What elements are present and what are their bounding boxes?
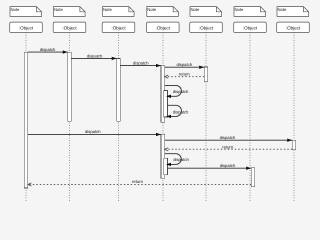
note N7	[277, 7, 309, 17]
message m12 return L6 to L1	[28, 179, 251, 186]
activation A2 on L2	[68, 52, 72, 121]
activation A4 on L4	[161, 66, 165, 123]
svg-text:return: return	[222, 144, 234, 149]
svg-text::Object: :Object	[111, 26, 126, 31]
note N6	[234, 7, 266, 17]
svg-text:dispatch: dispatch	[40, 47, 56, 52]
svg-text:Note: Note	[235, 7, 245, 12]
lifeline L4	[162, 33, 164, 202]
svg-text:dispatch: dispatch	[220, 135, 236, 140]
svg-text::Object: :Object	[62, 26, 77, 31]
lifeline L6	[249, 33, 251, 202]
message m7 dispatch L1->L4	[28, 129, 161, 136]
note N2	[54, 7, 86, 17]
note N4	[147, 7, 179, 17]
message m1 dispatch L1->L2	[28, 47, 68, 54]
object O4 ":Object"	[147, 22, 180, 32]
svg-text:Note: Note	[147, 7, 157, 12]
svg-text:Note: Note	[103, 7, 113, 12]
svg-text:dispatch: dispatch	[173, 110, 189, 115]
note N3	[103, 7, 135, 17]
svg-text::Object: :Object	[286, 26, 301, 31]
message m6 dispatch self on L4 (self call)	[165, 85, 189, 98]
message m4 dispatch L4->L5	[165, 62, 205, 69]
message m8 dispatch L4->L7	[165, 135, 293, 142]
svg-text:dispatch: dispatch	[176, 62, 192, 67]
svg-text:dispatch: dispatch	[87, 53, 103, 58]
object O6 ":Object"	[234, 22, 267, 32]
lifeline L5	[205, 33, 207, 202]
activation A6 on L6	[251, 168, 255, 187]
message m3 dispatch L3->L4	[120, 61, 161, 68]
activation A4c on L4 second	[161, 134, 165, 178]
svg-text::Object: :Object	[156, 26, 171, 31]
svg-text:Note: Note	[278, 7, 288, 12]
message m9 return L7 to L4	[165, 144, 293, 151]
message m11 dispatch L4->L6	[167, 163, 251, 170]
activation A3 on L3	[117, 58, 121, 121]
message m6b dispatch self on L4 (self call)	[166, 105, 189, 118]
object O7 ":Object"	[277, 22, 310, 32]
lifeline L7	[293, 33, 295, 202]
message m5 return L5 to L4	[165, 71, 205, 78]
svg-text::Object: :Object	[199, 26, 214, 31]
object O3 ":Object"	[102, 22, 135, 32]
activation A4d nested on L4	[164, 158, 168, 175]
svg-text:dispatch: dispatch	[133, 61, 149, 66]
activation A1 on L1	[24, 52, 28, 188]
object O2 ":Object"	[53, 22, 86, 32]
activation A7 on L7	[292, 140, 296, 150]
lifeline L1	[25, 33, 27, 202]
lifeline L2	[69, 33, 71, 202]
activation A5 on L5	[204, 67, 208, 82]
svg-text:dispatch: dispatch	[85, 129, 101, 134]
note N1	[10, 7, 42, 17]
svg-text:Note: Note	[191, 7, 201, 12]
object O1 ":Object"	[10, 22, 43, 32]
svg-text:dispatch: dispatch	[220, 163, 236, 168]
lifeline L3	[118, 33, 120, 202]
svg-text:dispatch: dispatch	[173, 89, 189, 94]
svg-text:return: return	[179, 71, 191, 76]
activation A4b nested on L4	[164, 91, 168, 118]
svg-text::Object: :Object	[19, 26, 34, 31]
svg-text:Note: Note	[11, 7, 21, 12]
object O5 ":Object"	[190, 22, 223, 32]
message m10 dispatch self on L4 (self call)	[165, 154, 190, 166]
message m2 dispatch L2->L3	[71, 53, 116, 60]
note N5	[190, 7, 222, 17]
svg-text:dispatch: dispatch	[173, 157, 189, 162]
svg-text:Note: Note	[54, 7, 64, 12]
svg-text:return: return	[132, 179, 144, 184]
svg-text::Object: :Object	[243, 26, 258, 31]
